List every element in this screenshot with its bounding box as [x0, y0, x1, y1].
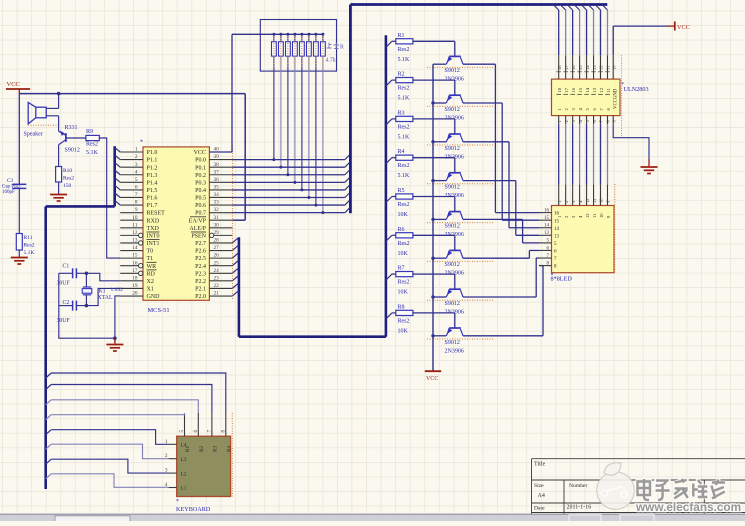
crystal K1 XTAL — [83, 286, 91, 288]
pin 16 WR — [120, 265, 138, 267]
pin 2 LED top — [565, 185, 567, 206]
svg-text:R331: R331 — [65, 125, 78, 131]
wire Q5 emitter to rail — [433, 218, 446, 220]
transistor Q8 S9012 2N3906 — [449, 327, 461, 329]
pin 17 RD — [120, 272, 138, 274]
svg-text:15: 15 — [132, 253, 138, 259]
svg-text:R3: R3 — [398, 110, 405, 116]
pin 4 P1.3 — [120, 174, 143, 176]
svg-text:16: 16 — [544, 208, 550, 213]
svg-text:ULN2803: ULN2803 — [624, 86, 649, 93]
resistor R5 — [392, 196, 396, 198]
pin 11 LED top — [593, 185, 595, 206]
pin 5 P1.4 — [120, 181, 143, 183]
pin 8 LED left — [539, 265, 552, 267]
pin 7 keyboard top — [211, 413, 213, 436]
pin 10 RXD — [120, 219, 143, 221]
wire pull-up 8 to P0.7 — [322, 56, 324, 213]
wire Q collector to R10 — [58, 145, 60, 167]
svg-text:R1: R1 — [398, 33, 405, 39]
svg-text:10K: 10K — [398, 212, 409, 218]
svg-text:C3: C3 — [7, 178, 13, 184]
resistor pull-up 8 — [321, 33, 324, 36]
svg-text:12: 12 — [585, 198, 590, 203]
svg-text:10K: 10K — [398, 290, 409, 296]
wire VCC flag to ULN pin10 — [612, 26, 614, 55]
wire bus entry P2.1 — [232, 283, 238, 288]
svg-text:Res2: Res2 — [398, 318, 410, 324]
pin 3 keyboard left — [169, 472, 177, 474]
svg-text:5.1K: 5.1K — [24, 250, 35, 256]
svg-text:X1: X1 — [147, 287, 154, 293]
svg-text:34: 34 — [214, 192, 220, 198]
pin 1 LED top — [558, 185, 560, 206]
ground (ULN) — [641, 167, 658, 174]
pin 12 LED top — [586, 185, 588, 206]
svg-text:23: 23 — [214, 275, 220, 281]
wire cap ground rail — [59, 273, 115, 338]
wire bus entry P2.5 — [232, 253, 238, 258]
pin 2 keyboard left — [169, 458, 177, 460]
pin 26 P2.5 — [209, 257, 232, 259]
capacitor C1 — [72, 268, 74, 278]
wire keyboard R1 — [46, 415, 52, 420]
marker LED right dotted — [614, 184, 616, 273]
pin 1 P1.0 — [120, 151, 143, 153]
svg-text:11: 11 — [606, 87, 611, 92]
pin 5 ULN bottom — [586, 116, 588, 125]
transistor Q3 S9012 2N3906 — [449, 133, 461, 135]
svg-text:2N3906: 2N3906 — [445, 348, 464, 354]
wire Q3 emitter to rail — [433, 141, 446, 143]
pin 20 GND — [120, 295, 143, 297]
watermark logo — [597, 463, 635, 510]
svg-text:10K: 10K — [398, 251, 409, 257]
svg-text:18: 18 — [132, 275, 138, 281]
wire Q7 emitter to rail — [433, 296, 446, 298]
wire Q4 collector to LED pin — [463, 180, 516, 182]
svg-text:5: 5 — [135, 177, 138, 183]
svg-text:EA/VP: EA/VP — [189, 218, 207, 224]
svg-text:35: 35 — [214, 185, 220, 191]
pin 15 LED left — [539, 219, 552, 221]
pin 4 keyboard left — [169, 487, 177, 489]
svg-text:C1: C1 — [63, 264, 70, 270]
svg-text:8: 8 — [220, 430, 226, 433]
transistor Q2 S9012 2N3906 — [449, 94, 461, 96]
svg-text:VCCGND: VCCGND — [614, 88, 619, 109]
chip 8*8LED D1 — [552, 206, 615, 273]
svg-text:6: 6 — [135, 185, 138, 191]
resistor R10 — [56, 167, 62, 183]
wire bus entry P2.6 — [232, 245, 238, 250]
svg-text:15: 15 — [578, 65, 583, 70]
wire bus entry P1.0 — [115, 147, 121, 152]
resistor pull-up 3 — [286, 33, 289, 36]
svg-text:11: 11 — [132, 222, 137, 228]
svg-text:VCC: VCC — [7, 81, 20, 88]
wire P0.4 to bus — [232, 189, 345, 191]
wire emitter rail — [432, 64, 434, 371]
resistor R6 — [392, 234, 396, 236]
wire R4 to Q4 base — [413, 157, 455, 159]
svg-text:P1.3: P1.3 — [147, 173, 158, 179]
wire P0.2 to bus — [232, 174, 345, 176]
svg-text:S9012: S9012 — [65, 148, 80, 154]
resistor R4 — [392, 157, 396, 159]
svg-text:P1.0: P1.0 — [147, 150, 158, 156]
svg-text:MCS-51: MCS-51 — [148, 307, 170, 314]
chip KEYBOARD S1 — [177, 436, 231, 496]
wire R8 to Q8 base — [413, 312, 455, 314]
wire Q1 emitter to rail — [433, 63, 446, 65]
svg-text:P1.5: P1.5 — [147, 188, 158, 194]
svg-text:13: 13 — [132, 238, 138, 244]
pin 15 ULN top — [574, 5, 580, 11]
wire bus entry R7 — [386, 274, 392, 280]
svg-text:14: 14 — [554, 227, 560, 232]
svg-text:P2.6: P2.6 — [195, 249, 206, 255]
pin 6 P1.5 — [120, 189, 143, 191]
wire pull-up 4 to P0.3 — [294, 56, 296, 182]
transistor Q6 S9012 2N3906 — [449, 249, 461, 251]
node ground rail junction — [113, 336, 117, 340]
pin 17 ULN top — [560, 5, 566, 11]
pin 19 X1 — [120, 287, 143, 289]
svg-text:INT0: INT0 — [147, 233, 160, 239]
svg-text:13: 13 — [544, 231, 550, 236]
wire bus entry R2 — [386, 80, 392, 86]
resistor R8 — [392, 312, 396, 314]
wire VCC to EA/VP — [244, 94, 246, 221]
wire Q5 collector to LED pin — [463, 218, 523, 220]
svg-text:15: 15 — [578, 87, 583, 92]
pin 13 ULN top — [588, 5, 594, 11]
svg-text:*: * — [176, 499, 179, 505]
svg-text:S9012: S9012 — [445, 223, 460, 229]
svg-text:Res2: Res2 — [398, 86, 410, 92]
transistor R331 S9012 (speaker driver) — [65, 133, 67, 142]
wire Q2 collector to LED pin — [463, 102, 502, 104]
wire Q8 collector to LED pin — [463, 335, 543, 337]
wire pull-up 2 to P0.1 — [280, 56, 282, 167]
wire keyboard R3 — [46, 385, 52, 390]
pin 1 keyboard left — [169, 443, 177, 445]
svg-text:S9012: S9012 — [445, 301, 460, 307]
pin 38 P0.1 — [209, 166, 232, 168]
svg-text:Res2: Res2 — [398, 47, 410, 53]
wire C2 left — [59, 305, 73, 307]
wire C1 right to X2 — [76, 273, 120, 281]
svg-text:4.7k: 4.7k — [326, 58, 336, 64]
svg-text:VCC: VCC — [677, 24, 690, 31]
svg-text:17: 17 — [132, 268, 138, 274]
wire P0.6 to bus — [232, 204, 345, 206]
svg-text:R9: R9 — [86, 129, 93, 135]
svg-text:25: 25 — [214, 260, 220, 266]
wire C3 to R11 — [18, 188, 20, 233]
wire pull-up 1 to P0.0 — [273, 56, 275, 160]
pin 36 P0.3 — [209, 181, 232, 183]
svg-text:14: 14 — [132, 245, 138, 251]
svg-text:S9012: S9012 — [445, 107, 460, 113]
transistor Q5 S9012 2N3906 — [449, 211, 461, 213]
wire bus entry P1.5 — [115, 185, 121, 190]
svg-text:11: 11 — [606, 65, 611, 70]
wire ULN out 4 to LED column — [579, 124, 581, 185]
svg-text:16: 16 — [132, 260, 138, 266]
svg-text:14: 14 — [585, 65, 590, 70]
pin 28 P2.7 — [209, 242, 232, 244]
resistor R3 — [392, 118, 396, 120]
svg-text:Cap Pol3: Cap Pol3 — [2, 184, 21, 189]
wire left VCC rail down — [18, 94, 20, 184]
svg-text:Res2: Res2 — [63, 176, 74, 182]
wire P0.3 to bus — [232, 181, 345, 183]
bus P2 — [238, 237, 241, 336]
wire bus entry P1.7 — [115, 200, 121, 205]
pin 12 INT0 — [120, 234, 138, 236]
wire P0.7 to bus — [232, 212, 345, 214]
svg-text:5: 5 — [179, 430, 185, 433]
pull-up pack box — [260, 20, 336, 72]
wire Q2 emitter to rail — [433, 102, 446, 104]
pin 39 P0.0 — [209, 159, 232, 161]
pin 7 LED left — [539, 257, 552, 259]
svg-text:9: 9 — [135, 207, 138, 213]
svg-text:10: 10 — [599, 198, 604, 203]
svg-text:14: 14 — [544, 224, 550, 229]
svg-text:11: 11 — [592, 213, 597, 218]
wire pull-up 3 to P0.2 — [287, 56, 289, 175]
wire ULN out 2 to LED column — [565, 124, 567, 185]
svg-text:P2.1: P2.1 — [195, 287, 206, 293]
pin 13 LED left — [539, 234, 552, 236]
resistor pull-up 6 — [307, 33, 310, 36]
svg-text:R2: R2 — [199, 446, 205, 452]
wire bus entry P2.7 — [232, 238, 238, 243]
pin 8 keyboard top — [225, 413, 227, 436]
svg-text:L2: L2 — [181, 471, 187, 477]
svg-text:P0.3: P0.3 — [195, 180, 206, 186]
svg-text:A4: A4 — [538, 493, 545, 499]
pin 4 ULN bottom — [579, 116, 581, 125]
svg-text:12: 12 — [599, 65, 604, 70]
svg-text:XTAL: XTAL — [98, 295, 113, 301]
wire R2 to Q2 base — [413, 79, 455, 81]
svg-text:S9012: S9012 — [445, 68, 460, 74]
svg-text:Res2: Res2 — [398, 202, 410, 208]
svg-text:R8: R8 — [398, 304, 405, 310]
pin 4 LED top — [579, 185, 581, 206]
pin 32 P0.7 — [209, 212, 232, 214]
svg-text:www.elecfans.com: www.elecfans.com — [635, 500, 741, 514]
svg-text:R5: R5 — [398, 188, 405, 194]
resistor pull-up 5 — [300, 33, 303, 36]
svg-text:150: 150 — [63, 183, 72, 189]
svg-text:27: 27 — [214, 245, 220, 251]
wire P0.1 to bus — [232, 166, 345, 168]
wire pull-up 7 to P0.6 — [315, 56, 317, 205]
svg-text:10K: 10K — [398, 328, 409, 334]
svg-text:P2.7: P2.7 — [195, 241, 206, 247]
pin 30 ALE/P — [209, 227, 232, 229]
svg-text:S9012: S9012 — [445, 185, 460, 191]
svg-text:5.1K: 5.1K — [398, 57, 411, 63]
wire P0.0 to bus — [232, 159, 345, 161]
svg-text:15: 15 — [554, 219, 560, 224]
pin 40 VCC — [209, 151, 232, 153]
node crystal/C2 junction — [85, 304, 89, 308]
svg-text:RD: RD — [147, 271, 156, 277]
wire ULN out 3 to LED column — [572, 124, 574, 185]
pin 3 LED top — [572, 185, 574, 206]
pin 5 keyboard top — [184, 413, 186, 436]
power symbol VCC (top right) — [668, 25, 675, 27]
pin 14 ULN top — [581, 5, 587, 11]
wire ULN out 6 to LED column — [593, 124, 595, 185]
capacitor C2 — [72, 301, 74, 311]
svg-text:3: 3 — [135, 162, 138, 168]
pin 15 T1 — [120, 257, 143, 259]
wire bus entry P2.3 — [232, 268, 238, 273]
scrollbar — [0, 514, 745, 521]
pin 10 ULN VCC — [612, 55, 614, 79]
wire P0.5 to bus — [232, 197, 345, 199]
wire pin40 VCC to pull-up rail — [209, 151, 232, 153]
pin 35 P0.4 — [209, 189, 232, 191]
svg-text:18: 18 — [557, 65, 562, 70]
svg-text:WR: WR — [147, 264, 157, 270]
watermark text dianzifashaoyou — [638, 479, 725, 500]
wire ULN pin9 to ground — [613, 124, 649, 159]
wire Q7 collector to LED pin — [463, 296, 536, 298]
svg-text:2011-1-16: 2011-1-16 — [567, 505, 592, 511]
svg-text:R7: R7 — [398, 266, 405, 272]
wire bus entry P2.2 — [232, 276, 238, 281]
svg-text:10: 10 — [611, 65, 616, 70]
pin 27 P2.6 — [209, 250, 232, 252]
pin 11 TXD — [120, 227, 143, 229]
wire Q6 collector to LED pin — [463, 257, 529, 259]
svg-text:R6: R6 — [398, 227, 405, 233]
pin 7 P1.6 — [120, 196, 143, 198]
marker keyboard right dotted — [231, 413, 233, 498]
wire bus entry R6 — [386, 235, 392, 241]
wire Q4 emitter to rail — [433, 180, 446, 182]
pin 13 INT1 — [120, 242, 138, 244]
wire R10 to ground — [58, 182, 60, 195]
pin 14 T0 — [120, 250, 143, 252]
pin 9 ULN GND — [612, 116, 614, 125]
pin 5 LED left — [539, 242, 552, 244]
svg-text:16: 16 — [571, 87, 576, 92]
pin 9 RESET — [120, 212, 143, 214]
wire keyboard L3 — [46, 444, 52, 449]
svg-text:P0.4: P0.4 — [195, 188, 206, 194]
svg-text:R3: R3 — [213, 446, 219, 452]
wire bus entry P1.2 — [115, 163, 121, 168]
svg-text:13: 13 — [592, 87, 597, 92]
wire keyboard R4 — [46, 373, 52, 378]
svg-text:8*8LED: 8*8LED — [551, 276, 573, 283]
wire keyboard L2 — [46, 459, 52, 464]
wire bus entry R3 — [386, 119, 392, 125]
wire bus entry P1.6 — [115, 193, 121, 198]
wire crystal top — [85, 273, 87, 287]
node C1/crystal junction — [85, 272, 89, 276]
pin 16 ULN top — [567, 5, 573, 11]
resistor pull-up 7 — [314, 33, 317, 36]
svg-text:ALE/P: ALE/P — [189, 226, 206, 232]
svg-text:S9012: S9012 — [445, 262, 460, 268]
wire crystal bottom — [85, 295, 87, 306]
wire bus entry P1.4 — [115, 178, 121, 183]
pin 6 keyboard top — [197, 413, 199, 436]
wire bus entry R8 — [386, 313, 392, 319]
svg-text:30: 30 — [214, 222, 220, 228]
svg-text:17: 17 — [564, 65, 569, 70]
bus P1 (left of chip) — [113, 146, 116, 206]
pin 29 PSEN — [214, 234, 233, 236]
svg-text:GND: GND — [147, 294, 161, 300]
transistor Q4 S9012 2N3906 — [449, 172, 461, 174]
svg-text:P1.4: P1.4 — [147, 180, 158, 186]
svg-text:24: 24 — [214, 268, 220, 274]
pin 23 P2.2 — [209, 280, 232, 282]
svg-text:R11: R11 — [24, 235, 33, 241]
pin 8 ULN bottom — [606, 116, 608, 125]
svg-text:12: 12 — [585, 213, 590, 218]
wire Q3 collector to LED pin — [463, 141, 509, 143]
wire C1 left — [59, 272, 73, 274]
resistor pull-up 2 — [279, 33, 282, 36]
wire bus entry R1 — [386, 41, 392, 47]
svg-text:Number: Number — [569, 483, 587, 489]
wire R5 to Q5 base — [413, 196, 455, 198]
svg-text:16: 16 — [571, 65, 576, 70]
pin 34 P0.5 — [209, 196, 232, 198]
transistor Q1 S9012 2N3906 — [449, 55, 461, 57]
pin 9 LED top — [606, 185, 608, 206]
svg-text:10: 10 — [599, 213, 604, 218]
power symbol VCC (emitter rail) — [425, 370, 441, 372]
svg-text:R1: R1 — [185, 446, 191, 452]
svg-text:15: 15 — [544, 216, 550, 221]
svg-text:TXD: TXD — [147, 226, 160, 232]
wire bus entry R4 — [386, 158, 392, 164]
svg-text:6: 6 — [193, 430, 199, 433]
svg-text:P1.1: P1.1 — [147, 158, 158, 164]
svg-text:8: 8 — [135, 200, 138, 206]
svg-text:18: 18 — [557, 87, 562, 92]
wire GND pin to ground — [115, 296, 120, 343]
svg-text:P2.2: P2.2 — [195, 279, 206, 285]
svg-text:26: 26 — [214, 253, 220, 259]
svg-text:P2.0: P2.0 — [195, 294, 206, 300]
svg-text:VCC: VCC — [194, 150, 206, 156]
pin 14 LED left — [539, 227, 552, 229]
svg-text:P0.7: P0.7 — [195, 211, 206, 217]
wire ULN out 8 to LED column — [606, 124, 608, 185]
marker chip right dotted — [232, 146, 234, 300]
svg-text:P0.2: P0.2 — [195, 173, 206, 179]
pin 21 P2.0 — [209, 295, 232, 297]
svg-text:36: 36 — [214, 177, 220, 183]
svg-text:4: 4 — [135, 169, 138, 175]
svg-text:20: 20 — [132, 291, 138, 297]
svg-text:Title: Title — [534, 462, 545, 468]
